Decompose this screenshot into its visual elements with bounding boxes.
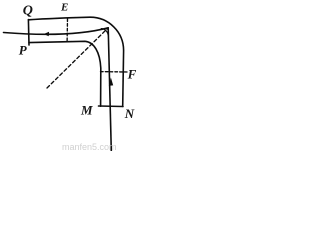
- svg-text:manfen5.com: manfen5.com: [62, 142, 117, 151]
- svg-text:M: M: [80, 103, 93, 118]
- svg-text:F: F: [127, 67, 137, 82]
- svg-text:N: N: [124, 106, 135, 121]
- svg-text:E: E: [60, 1, 68, 13]
- svg-text:Q: Q: [23, 3, 33, 18]
- svg-text:P: P: [19, 43, 28, 58]
